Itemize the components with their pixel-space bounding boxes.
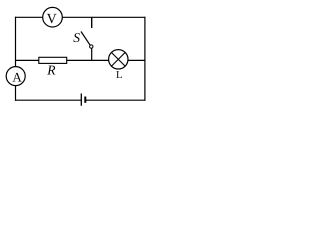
battery short thick plate (negative) (84, 97, 86, 103)
resistor R box (39, 57, 67, 63)
wire middle horizontal (y=60.4) (16, 59, 145, 61)
switch S blade (open) (81, 32, 90, 46)
wire left vertical (x=15.5) (15, 17, 17, 101)
voltmeter U-V circle (43, 7, 63, 27)
svg-text:V: V (47, 12, 57, 27)
wire top (y=17.3 from x=15.5 to x=144.9) (15, 16, 145, 18)
switch S stub from top wire (91, 17, 93, 28)
lamp L circle (109, 50, 128, 69)
wire bottom left segment to battery (15, 99, 81, 101)
wire right vertical (x=144.9) (144, 17, 146, 101)
svg-text:L: L (116, 70, 122, 81)
switch S lower link to middle wire (91, 48, 93, 60)
ammeter circle (6, 67, 25, 86)
svg-text:R: R (46, 63, 56, 78)
battery long plate (positive) (80, 94, 82, 106)
switch S pivot circle (90, 45, 93, 48)
wire bottom right segment from battery (86, 99, 145, 101)
svg-text:S: S (73, 30, 80, 45)
svg-text:A: A (12, 70, 22, 85)
lamp X diagonal 1 (112, 53, 126, 67)
lamp X diagonal 2 (112, 53, 126, 67)
